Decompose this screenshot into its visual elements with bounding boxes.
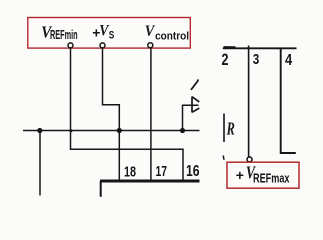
resistor R bar	[223, 114, 225, 143]
svg-text:16: 16	[186, 163, 200, 180]
label +VS	[92, 22, 114, 41]
svg-text:control: control	[155, 31, 189, 43]
tick mark	[222, 156, 225, 160]
wire pin 4	[281, 49, 296, 153]
terminal VREFmin	[68, 43, 73, 48]
label Vcontrol	[145, 23, 189, 43]
junction dot B	[117, 128, 122, 133]
wire +VS jog	[103, 48, 120, 130]
svg-text:REFmin: REFmin	[50, 27, 78, 42]
wire pin 3	[248, 46, 250, 157]
wire pin 18	[118, 131, 120, 181]
wire stub down left	[39, 131, 41, 196]
svg-text:4: 4	[285, 52, 292, 69]
comparator U1 partial	[192, 97, 199, 113]
label +VREFmax	[236, 163, 290, 186]
svg-text:V: V	[145, 23, 156, 40]
svg-text:R: R	[226, 118, 235, 138]
IC corner down	[100, 181, 102, 197]
svg-text:18: 18	[124, 165, 136, 181]
wire Vcontrol to pin 17	[150, 48, 152, 180]
wire to comparator input	[183, 105, 199, 130]
junction blob at VREFmin wire crossing	[70, 129, 73, 132]
svg-text:17: 17	[156, 164, 168, 180]
IC top edge right fragment	[224, 46, 236, 48]
annotation box +VREFmax	[227, 162, 299, 188]
potentiometer arrow cropped	[191, 79, 198, 89]
junction dot A	[37, 128, 42, 133]
IC top edge thick line	[100, 180, 200, 183]
label VREFmin	[41, 22, 77, 42]
terminal Vcontrol	[148, 43, 153, 48]
terminal +VS	[100, 43, 105, 48]
annotation box VREFmin +VS Vcontrol	[28, 18, 191, 49]
junction dot C	[180, 128, 185, 133]
svg-text:3: 3	[253, 52, 260, 68]
svg-text:2: 2	[222, 51, 229, 69]
terminal +VREFmax	[247, 157, 252, 162]
bus wire horizontal	[23, 130, 200, 132]
svg-text:S: S	[109, 30, 115, 42]
svg-text:+: +	[236, 167, 244, 183]
wire VREFmin to pin 16	[71, 48, 184, 180]
svg-text:REFmax: REFmax	[253, 171, 290, 185]
